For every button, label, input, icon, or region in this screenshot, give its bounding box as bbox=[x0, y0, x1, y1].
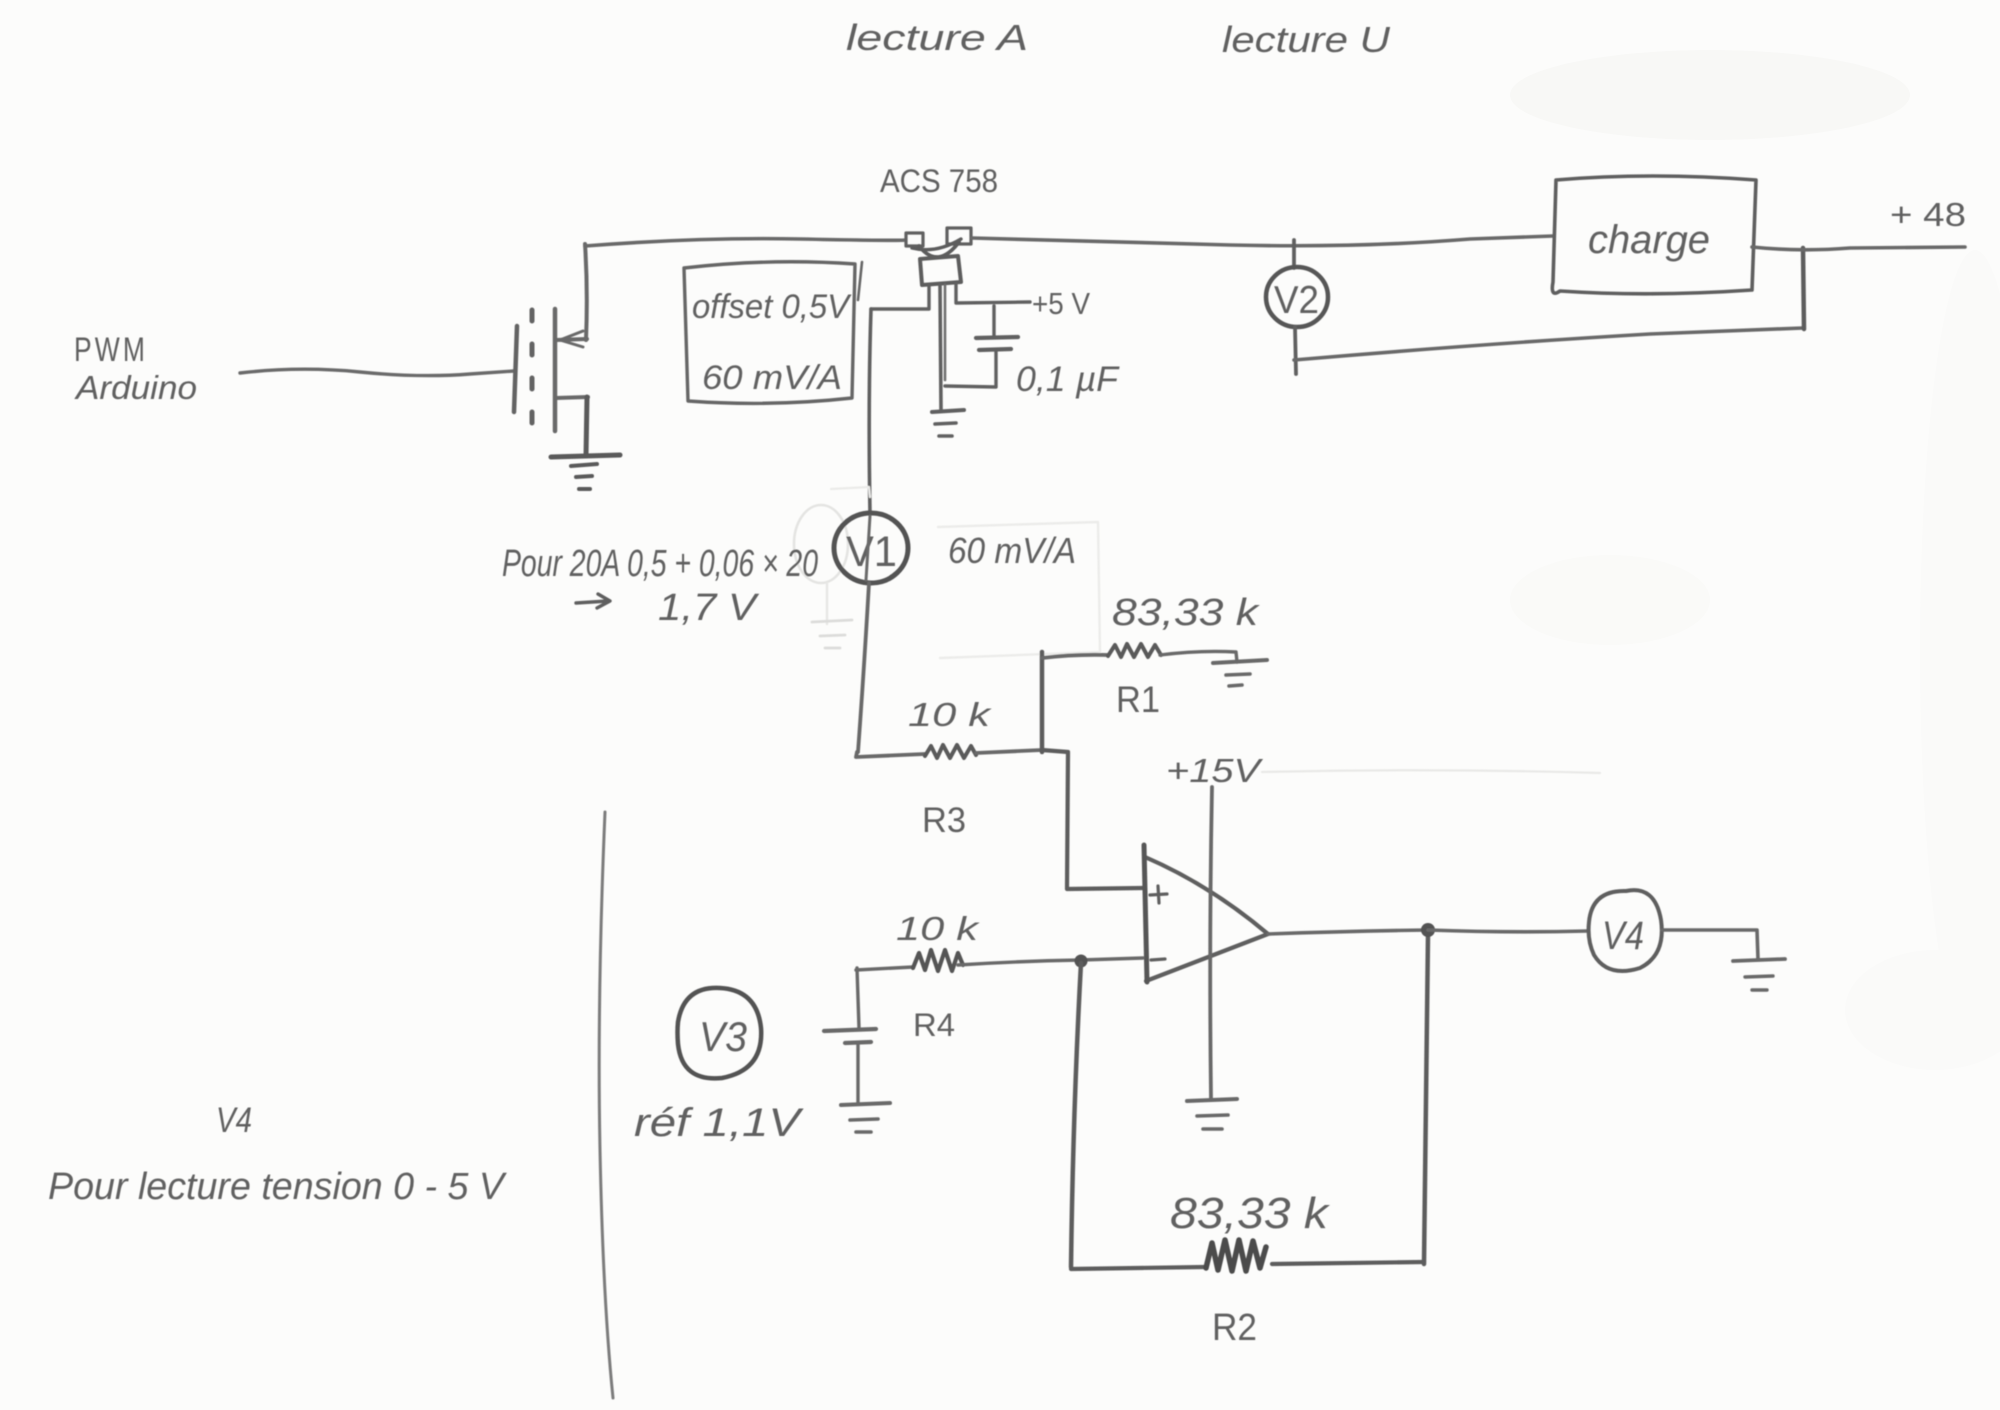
transistor Q1 drain arrow bbox=[560, 331, 583, 347]
svg-text:10 k: 10 k bbox=[908, 696, 992, 733]
wire VIOUT vertical to V1 bbox=[869, 309, 871, 513]
wire R4 row left bbox=[856, 967, 913, 970]
voltmeter V3 circle bbox=[678, 988, 762, 1078]
wire R3 to junction bbox=[976, 750, 1042, 753]
svg-text:60 mV/A: 60 mV/A bbox=[948, 530, 1076, 571]
battery V3 ref bottom plate bbox=[845, 1042, 871, 1043]
wire R2 row left bbox=[1071, 1267, 1205, 1269]
op-amp U1 bbox=[1145, 857, 1268, 981]
resistor R3 bbox=[925, 745, 976, 758]
annotation arrow bbox=[576, 594, 610, 608]
ghost erased box bbox=[938, 522, 1100, 658]
ground below op-amp bbox=[1187, 1099, 1237, 1101]
svg-text:R4: R4 bbox=[913, 1007, 955, 1043]
ground battery bbox=[841, 1103, 890, 1105]
ground under Q1 bbox=[551, 455, 620, 457]
svg-text:83,33 k: 83,33 k bbox=[1112, 592, 1260, 634]
wire V1 down bbox=[858, 583, 869, 752]
label PWM Arduino bbox=[74, 331, 197, 406]
svg-text:60 mV/A: 60 mV/A bbox=[702, 359, 842, 397]
wire source down bbox=[586, 397, 587, 456]
sensor ACS758 left pad bbox=[906, 233, 923, 246]
ghost erased corner above V1 bbox=[831, 487, 870, 497]
transistor Q1 dashed channel bbox=[530, 310, 535, 430]
resistor R4 bbox=[913, 950, 963, 971]
transistor Q1 drain lead bbox=[556, 339, 587, 340]
voltmeter V2 circle bbox=[1266, 267, 1328, 327]
wire feedback up bbox=[1424, 935, 1428, 1264]
capacitor C1 bottom lead bbox=[945, 351, 996, 387]
svg-text:+5 V: +5 V bbox=[1032, 286, 1090, 321]
svg-text:+15V: +15V bbox=[1166, 752, 1264, 789]
wire R2 row right bbox=[1272, 1262, 1424, 1264]
wire PWM input to gate bbox=[240, 369, 514, 375]
wire R4 left corner down bbox=[857, 968, 859, 1028]
paper shading top right bbox=[1510, 50, 1910, 140]
ghost erased circle near V1 bbox=[794, 505, 848, 583]
transistor Q1 source lead bbox=[556, 397, 588, 398]
sensor ACS758 loop bbox=[919, 242, 959, 257]
svg-text:R3: R3 bbox=[922, 801, 966, 840]
svg-text:ACS 758: ACS 758 bbox=[880, 163, 998, 199]
capacitor C1 plates bbox=[976, 337, 1018, 338]
wire -input junction down bbox=[1071, 963, 1081, 1267]
svg-text:Pour 20A 0,5 + 0,06 × 20: Pour 20A 0,5 + 0,06 × 20 bbox=[502, 543, 818, 585]
box charge bbox=[1552, 176, 1756, 294]
ghost faint pencil line right of +15V bbox=[1262, 770, 1600, 773]
stray fold line bbox=[599, 812, 613, 1398]
wire output to V4 bbox=[1428, 930, 1588, 932]
wire V4 to ground bbox=[1662, 930, 1758, 959]
op-amp U1 plus input mark bbox=[1150, 886, 1167, 903]
resistor R1 bbox=[1108, 644, 1161, 657]
wire junction up to R1 bbox=[1040, 652, 1045, 752]
voltmeter V1 circle bbox=[834, 513, 908, 583]
svg-text:V4: V4 bbox=[1602, 914, 1644, 958]
ground ACS bbox=[932, 410, 964, 412]
svg-text:offset 0,5V: offset 0,5V bbox=[692, 288, 852, 326]
wire R3 row bbox=[856, 752, 925, 757]
voltmeter V2 bottom lead bbox=[1295, 327, 1296, 374]
wire R1 row bbox=[1042, 655, 1108, 658]
svg-text:R1: R1 bbox=[1116, 679, 1160, 720]
wire R1 to ground bbox=[1160, 651, 1237, 662]
battery V3 ref top plate bbox=[824, 1029, 876, 1031]
op-amp U1 left edge bbox=[1144, 845, 1147, 982]
box offset 0,5V / 60 mV/A bbox=[684, 262, 855, 404]
wire VIOUT from package down-left bbox=[871, 285, 929, 309]
svg-text:1,7 V: 1,7 V bbox=[658, 587, 760, 629]
op-amp U1 minus input mark bbox=[1151, 959, 1165, 960]
voltmeter V2 top lead bbox=[1292, 240, 1296, 268]
junction dot output bbox=[1421, 923, 1435, 937]
wire GND pin retrace bbox=[944, 285, 947, 380]
svg-text:réf 1,1V: réf 1,1V bbox=[634, 1101, 804, 1145]
svg-text:Pour lecture tension 0 - 5: Pour lecture tension 0 - 5 V bbox=[48, 1166, 508, 1208]
svg-text:PWM: PWM bbox=[74, 331, 148, 369]
transistor Q1 (MOSFET) gate bar bbox=[514, 326, 517, 412]
wire +5V tap bbox=[956, 284, 1030, 303]
ghost erased ground bbox=[812, 620, 852, 648]
wire +15V down through opamp bbox=[1210, 787, 1212, 1098]
capacitor C1 top lead bbox=[992, 306, 995, 337]
svg-text:10 k: 10 k bbox=[896, 910, 980, 947]
svg-text:lecture A: lecture A bbox=[846, 17, 1028, 58]
sensor ACS758 right pad bbox=[947, 228, 971, 244]
wire charge to +48 bbox=[1752, 247, 1965, 250]
ground V4 bbox=[1733, 959, 1785, 961]
resistor R2 bbox=[1206, 1240, 1266, 1271]
wire top rail (drain to ACS) bbox=[585, 239, 905, 246]
sensor ACS758 package bbox=[920, 256, 961, 285]
svg-text:+ 48: + 48 bbox=[1890, 196, 1966, 233]
wire charge branch vertical bbox=[1803, 248, 1804, 329]
svg-text:V2: V2 bbox=[1274, 279, 1319, 322]
voltmeter V4 circle bbox=[1589, 890, 1662, 971]
wire V1 through circle bbox=[866, 516, 870, 580]
box pen overshoot stroke bbox=[858, 262, 862, 300]
ghost erased wire below circle bbox=[826, 583, 828, 624]
svg-text:0,1 µF: 0,1 µF bbox=[1016, 360, 1121, 399]
svg-text:R2: R2 bbox=[1212, 1307, 1257, 1349]
wire V2 return to charge bbox=[1294, 328, 1803, 360]
wire drain up to top rail bbox=[585, 244, 587, 340]
sensor ACS758 loop chord bbox=[912, 239, 961, 250]
svg-text:charge: charge bbox=[1588, 218, 1710, 262]
wire R4 to junction and -input bbox=[958, 958, 1143, 965]
wire top rail ACS to charge box bbox=[972, 236, 1553, 246]
svg-text:83,33 k: 83,33 k bbox=[1170, 1189, 1330, 1238]
wire op-amp output bbox=[1268, 930, 1428, 934]
svg-text:lecture U: lecture U bbox=[1222, 19, 1391, 60]
wire junction step to +input bbox=[1042, 750, 1143, 889]
svg-text:Arduino: Arduino bbox=[74, 369, 197, 406]
svg-text:V3: V3 bbox=[699, 1013, 747, 1060]
wire GND pin down bbox=[940, 285, 941, 409]
svg-text:V4: V4 bbox=[216, 1101, 252, 1140]
wire battery down bbox=[856, 1043, 859, 1103]
transistor Q1 body bar bbox=[553, 309, 558, 431]
junction dot -input bbox=[1075, 955, 1088, 968]
ground R1 bbox=[1213, 660, 1267, 663]
svg-text:V1: V1 bbox=[846, 528, 897, 576]
